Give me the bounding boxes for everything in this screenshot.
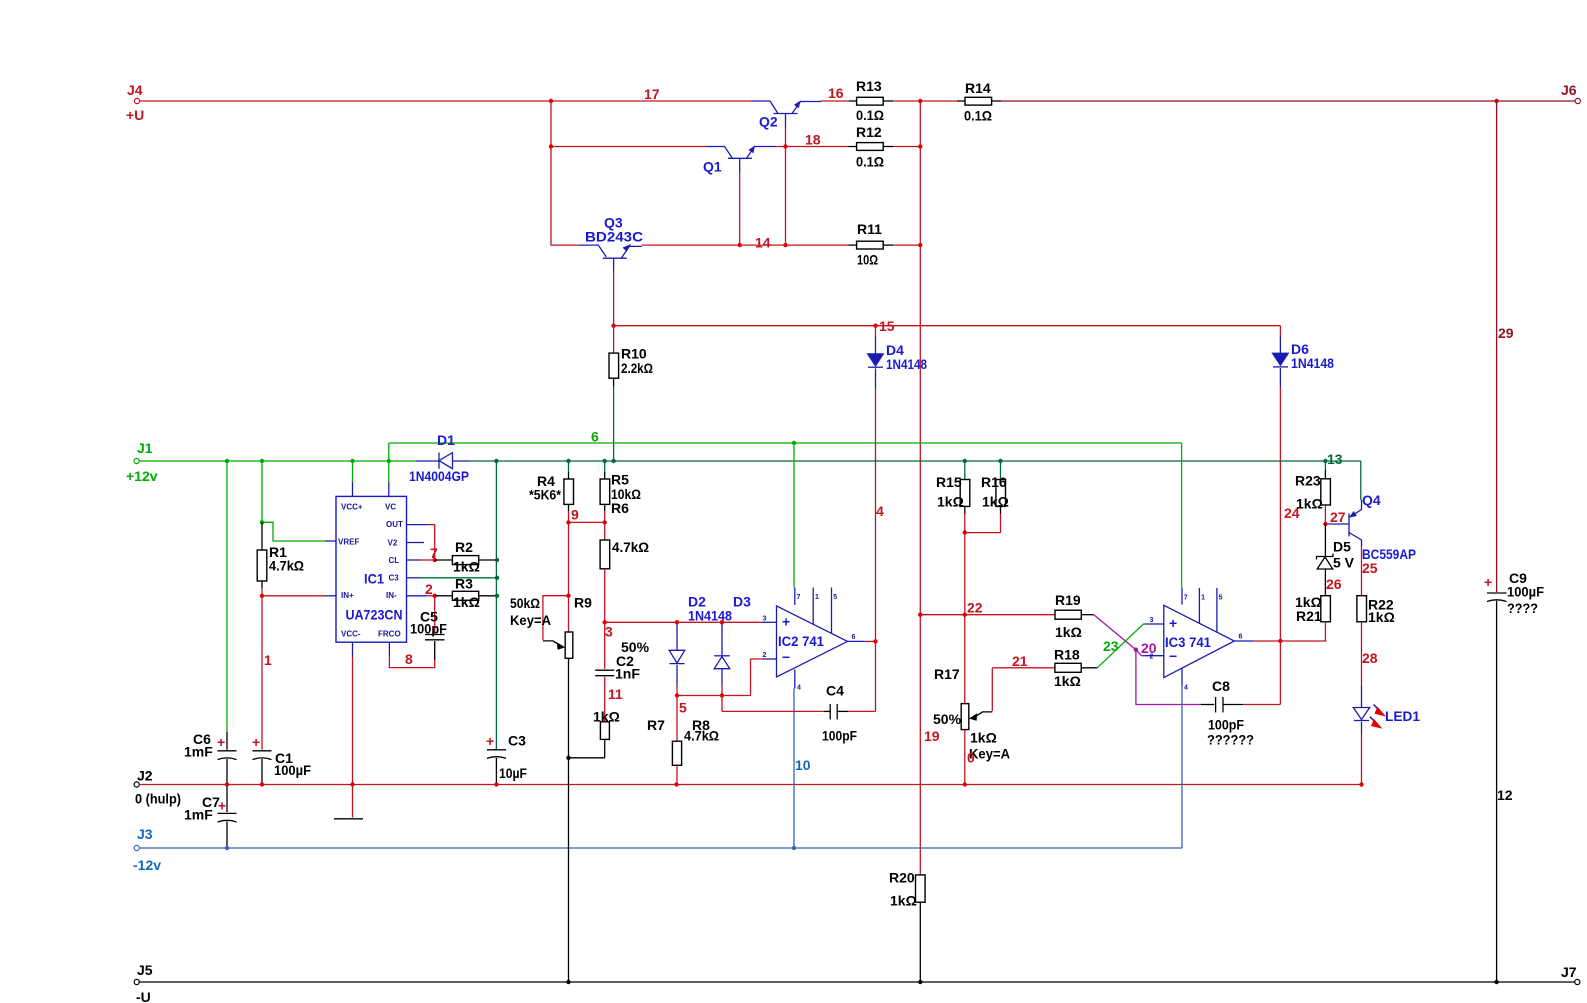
svg-text:−: −: [1169, 648, 1177, 664]
junction C3: [494, 782, 498, 786]
svg-text:4: 4: [797, 685, 801, 692]
resistor R16 1k: [981, 461, 1009, 533]
wire +12v down to C6: [226, 461, 228, 732]
svg-text:15: 15: [879, 318, 895, 334]
terminal J3: [133, 826, 161, 873]
svg-text:2.2kΩ: 2.2kΩ: [621, 360, 653, 376]
wire Q1 base down to net 14: [739, 173, 741, 245]
transistor Q3 BD243C (NPN driver): [579, 215, 643, 272]
svg-text:22: 22: [967, 600, 983, 616]
svg-text:10Ω: 10Ω: [857, 252, 878, 268]
svg-text:1mF: 1mF: [184, 744, 213, 760]
svg-text:3: 3: [763, 616, 767, 623]
wire -12v blue rail: [139, 847, 1182, 849]
junction R3 right on dark green: [495, 594, 499, 598]
svg-text:14: 14: [755, 235, 771, 251]
wire left rail x=551 down to Q3: [551, 101, 579, 245]
wire net 23 green diagonal R18 to IC3 non-inverting: [1097, 624, 1144, 668]
resistor R21 1k: [1295, 594, 1330, 641]
svg-text:26: 26: [1326, 576, 1342, 592]
wire net 1 down to C1: [261, 596, 263, 750]
svg-text:C3: C3: [389, 574, 400, 583]
wire net 3 row: [605, 621, 762, 623]
terminal J7: [1561, 964, 1580, 985]
svg-text:4: 4: [1184, 685, 1188, 692]
svg-text:1kΩ: 1kΩ: [890, 893, 917, 909]
wire 29 maroon vertical to C9: [1496, 101, 1498, 592]
svg-text:8: 8: [405, 651, 413, 667]
svg-text:0.1Ω: 0.1Ω: [964, 108, 992, 124]
wire VCC+ pin connection down to IC1: [352, 461, 354, 482]
IC1 UA723CN body: [325, 482, 427, 657]
svg-text:29: 29: [1498, 325, 1514, 341]
svg-text:J1: J1: [137, 440, 153, 456]
wire Q1 emitter to net 18 continuation: [776, 146, 849, 148]
svg-text:R7: R7: [647, 717, 665, 733]
capacitor C4 100pF: [722, 683, 876, 744]
capacitor C8 100pF: [1201, 678, 1281, 748]
svg-text:13: 13: [1327, 451, 1343, 467]
junction rail/R11: [918, 243, 922, 247]
svg-text:*5K6*: *5K6*: [529, 487, 561, 503]
svg-text:1: 1: [815, 594, 819, 601]
junction R20 bottom: [918, 980, 922, 984]
potentiometer R17 1k: [933, 615, 1010, 785]
wire R21 bottom corner to IC3 output row: [1324, 640, 1327, 642]
svg-text:50kΩ: 50kΩ: [510, 595, 540, 611]
junction C6 column: [225, 459, 229, 463]
svg-text:+U: +U: [126, 107, 144, 123]
svg-text:50%: 50%: [933, 711, 962, 727]
junction Q1 base / net 14: [738, 243, 742, 247]
wire net 6 corner down to IC3 pin7: [1181, 443, 1183, 588]
svg-text:1: 1: [264, 652, 272, 668]
wire IC3 pin4 down to -12v rail: [1181, 686, 1183, 848]
wire C3 pin (dark green) to x=497: [419, 577, 497, 579]
wire D2 bottom to net 5: [676, 685, 678, 696]
wire R7 bottom to pot column: [569, 757, 605, 759]
op-amp IC2 741: [762, 588, 865, 692]
svg-text:7: 7: [1184, 595, 1188, 602]
svg-text:IC2 741: IC2 741: [778, 633, 824, 649]
svg-text:4: 4: [876, 503, 884, 519]
svg-text:18: 18: [805, 132, 821, 148]
svg-text:FRCO: FRCO: [378, 630, 401, 639]
svg-text:R17: R17: [934, 666, 960, 682]
svg-text:16: 16: [828, 85, 844, 101]
svg-text:4.7kΩ: 4.7kΩ: [684, 728, 719, 744]
junction Q2 base / net 18: [783, 144, 787, 148]
resistor R5 10k: [600, 461, 641, 516]
wire R10 bottom to dark-green output sense: [613, 386, 615, 461]
svg-text:J2: J2: [137, 768, 153, 784]
svg-text:R23: R23: [1295, 473, 1321, 489]
wire net 5 corner up to IC2 inverting input: [751, 659, 764, 696]
terminal J4: [126, 82, 144, 123]
resistor R1 4.7k: [257, 522, 304, 588]
resistor R15 1k: [936, 461, 970, 533]
svg-text:100pF: 100pF: [1208, 717, 1244, 733]
junction VCC-/ground: [350, 782, 354, 786]
svg-text:1kΩ: 1kΩ: [593, 709, 620, 725]
svg-text:1: 1: [1201, 595, 1205, 602]
capacitor C3 10uF: [486, 733, 527, 785]
svg-text:IC1: IC1: [364, 571, 384, 587]
transistor Q1 (PNP pass): [703, 147, 776, 175]
svg-text:R19: R19: [1055, 592, 1081, 608]
junction R23 column (node 13): [1323, 459, 1327, 463]
pin stubs: [352, 482, 354, 496]
svg-text:Q2: Q2: [759, 114, 778, 130]
svg-text:1kΩ: 1kΩ: [453, 594, 480, 610]
resistor R8 4.7k: [672, 696, 719, 785]
junction D3 top / net 3: [720, 620, 724, 624]
resistor R23 1k: [1295, 461, 1330, 524]
svg-text:R21: R21: [1296, 608, 1322, 624]
wire net 18 row from rail to Q1 collector: [551, 146, 705, 148]
svg-text:Key=A: Key=A: [969, 746, 1010, 762]
junction R17 bottom: [963, 782, 967, 786]
svg-text:OUT: OUT: [386, 520, 403, 529]
svg-text:1mF: 1mF: [184, 807, 213, 823]
junction C3 row: [495, 576, 499, 580]
wire -U bottom rail: [139, 981, 1574, 983]
wire OUT pin to node 7: [427, 525, 435, 560]
svg-text:19: 19: [924, 728, 940, 744]
junction R1 top / VREF: [260, 520, 264, 524]
svg-text:−: −: [782, 649, 790, 665]
svg-text:+: +: [218, 798, 226, 814]
wire Q3 base down to net 15: [613, 272, 615, 326]
svg-text:J5: J5: [137, 962, 153, 978]
capacitor C5 100pF: [410, 596, 447, 660]
resistor R13 0.1ohm: [821, 78, 920, 123]
svg-text:R3: R3: [455, 576, 473, 592]
junction node 2: [433, 594, 437, 598]
junction net15/R10/Q3 base: [611, 324, 615, 328]
svg-text:100pF: 100pF: [822, 728, 857, 744]
svg-text:+: +: [1484, 574, 1492, 590]
LED1: [1353, 686, 1420, 785]
wire down to net 22: [964, 533, 966, 615]
svg-text:R11: R11: [857, 221, 882, 237]
junction R8: [674, 782, 678, 786]
wire net 6 branch down to IC2 pin7: [793, 443, 795, 588]
wire +U from J4 to Q2 collector (net 17): [140, 100, 751, 102]
svg-text:R16: R16: [981, 474, 1007, 490]
svg-text:VC: VC: [385, 503, 396, 512]
diode D1 1N4004GP: [409, 432, 470, 484]
svg-text:6: 6: [1239, 634, 1243, 641]
wire IC2 pin4 down to -12v rail: [793, 688, 795, 848]
svg-text:0 (hulp): 0 (hulp): [135, 791, 181, 807]
svg-text:1N4148: 1N4148: [688, 608, 732, 624]
terminal J2: [134, 768, 181, 807]
resistor R7 1k: [593, 709, 665, 758]
svg-text:+: +: [782, 614, 790, 630]
svg-text:LED1: LED1: [1385, 708, 1420, 724]
svg-text:1kΩ: 1kΩ: [1055, 624, 1082, 640]
svg-text:BD243C: BD243C: [585, 229, 643, 245]
svg-text:VCC+: VCC+: [341, 503, 363, 512]
junction R1 bottom: [260, 594, 264, 598]
svg-text:VCC-: VCC-: [341, 630, 361, 639]
wire VREF green loop to R1 top: [262, 522, 325, 541]
svg-text:5: 5: [1219, 595, 1223, 602]
op-amp IC3 741: [1145, 588, 1253, 692]
junction node 7: [433, 558, 437, 562]
wire R1 bottom to IN+ (net 1): [261, 588, 263, 596]
resistor R3 1k: [435, 576, 497, 611]
svg-text:D3: D3: [733, 594, 751, 610]
wire net 9 joining R4/R5 bottoms: [569, 511, 605, 522]
svg-text:100pF: 100pF: [410, 621, 447, 637]
resistor R2 1k: [435, 539, 497, 575]
wire CL pin to node 7: [420, 559, 435, 561]
svg-text:4.7kΩ: 4.7kΩ: [269, 558, 304, 574]
svg-text:-U: -U: [136, 989, 151, 1003]
capacitor C7 1mF: [184, 785, 237, 849]
svg-text:R18: R18: [1054, 647, 1080, 663]
svg-text:Q1: Q1: [703, 159, 722, 175]
terminal J5: [134, 962, 153, 1003]
svg-text:3: 3: [605, 624, 613, 640]
wire VCC- down to 0-rail: [352, 657, 354, 785]
zener diode D5 5V: [1317, 524, 1355, 596]
resistor R6 4.7k: [600, 522, 649, 622]
junction C1/R1 column: [260, 459, 264, 463]
junction D2 top / net 3: [675, 620, 679, 624]
wire IN- pin to node 2: [427, 595, 435, 597]
svg-text:????: ????: [1507, 600, 1538, 616]
resistor R4 5K6: [529, 461, 574, 511]
svg-text:+: +: [252, 734, 260, 750]
svg-text:J3: J3: [137, 826, 153, 842]
junction pot column: [566, 756, 570, 760]
svg-text:5 V: 5 V: [1333, 555, 1355, 571]
diode D4 1N4148: [868, 326, 927, 390]
wire net 15 horizontal: [614, 325, 1281, 327]
svg-text:12: 12: [1497, 787, 1513, 803]
wire Q4 collector down to R22 (net 25): [1361, 546, 1363, 596]
svg-text:7: 7: [797, 594, 801, 601]
svg-text:C3: C3: [508, 733, 526, 749]
wire joining R15/R16 bottoms: [965, 532, 1001, 534]
svg-text:1N4148: 1N4148: [886, 356, 927, 372]
svg-text:1kΩ: 1kΩ: [1296, 496, 1323, 512]
svg-text:2: 2: [1150, 654, 1154, 661]
svg-text:Q4: Q4: [1362, 492, 1381, 508]
svg-text:0.1Ω: 0.1Ω: [856, 107, 884, 123]
junction net3/R6/C2: [603, 620, 607, 624]
svg-text:1kΩ: 1kΩ: [1368, 609, 1395, 625]
wire IC3 output row: [1253, 640, 1326, 642]
svg-text:IN+: IN+: [341, 591, 354, 600]
svg-text:1N4004GP: 1N4004GP: [409, 468, 469, 484]
svg-text:3: 3: [1150, 617, 1154, 624]
wire VC pin connection down to IC1: [388, 461, 390, 482]
svg-text:R9: R9: [574, 595, 592, 611]
svg-text:1kΩ: 1kΩ: [982, 494, 1009, 510]
junction at (551,146.5): [549, 144, 553, 148]
svg-text:+: +: [1169, 615, 1177, 631]
junction R2 right on dark green: [495, 558, 499, 562]
resistor R14 0.1ohm: [920, 80, 1001, 124]
resistor R11 10ohm: [849, 221, 921, 268]
wire net 14 from Q3 emitter to R11: [642, 244, 849, 246]
wire from +12v rail down to R1 top: [261, 461, 263, 522]
junction rail/R12: [918, 144, 922, 148]
diode D3 1N4148: [714, 594, 751, 686]
svg-text:9: 9: [571, 507, 579, 523]
svg-text:11: 11: [608, 686, 623, 702]
wire net 13 column to Q4 emitter: [1360, 461, 1362, 500]
junction IC2 pin4: [792, 846, 796, 850]
svg-text:17: 17: [644, 86, 660, 102]
diode D2 1N4148: [669, 594, 732, 686]
junction LED1 bottom: [1359, 782, 1363, 786]
diode D6 1N4148: [1273, 326, 1335, 388]
wire net 24 from D6 down to IC3 output row: [1279, 388, 1281, 705]
wire net 21 row: [992, 667, 1055, 669]
capacitor C9 100uF: [1484, 570, 1544, 982]
svg-text:0: 0: [967, 750, 975, 766]
svg-text:-12v: -12v: [133, 857, 161, 873]
svg-text:4.7kΩ: 4.7kΩ: [612, 539, 649, 555]
svg-text:D5: D5: [1333, 539, 1351, 555]
svg-text:UA723CN: UA723CN: [346, 607, 403, 623]
junction R5 column: [603, 459, 607, 463]
svg-text:10: 10: [795, 757, 811, 773]
junction Q2 base line / net 14: [783, 243, 787, 247]
wire dark green output-sense net from D1 to Q4: [470, 460, 1361, 462]
svg-text:R20: R20: [889, 870, 915, 886]
svg-text:1kΩ: 1kΩ: [453, 559, 480, 575]
transistor Q2 (PNP pass): [751, 101, 821, 130]
svg-text:V2: V2: [388, 539, 398, 548]
svg-text:R2: R2: [455, 539, 473, 555]
junction at (551,101): [549, 99, 553, 103]
svg-text:6: 6: [591, 429, 599, 445]
svg-text:2: 2: [425, 581, 433, 597]
svg-text:VREF: VREF: [338, 538, 359, 547]
wire 0(hulp) red rail: [139, 784, 1361, 786]
wire output after R14 to J6 (maroon net): [1001, 100, 1575, 102]
wire net 20 purple diagonal R19 to IC3 inverting: [1094, 615, 1136, 650]
junction R15 column: [963, 459, 967, 463]
potentiometer R9 50k: [510, 522, 592, 982]
wire net 22 row: [920, 614, 1055, 616]
svg-text:5: 5: [833, 594, 837, 601]
wire net 8 from C5 to FRCO: [389, 656, 434, 668]
svg-text:J6: J6: [1561, 82, 1577, 98]
ground symbol below 0-rail: [334, 785, 363, 819]
svg-text:+12v: +12v: [126, 468, 158, 484]
wire dark green vertical x=497 down to C3: [495, 461, 497, 750]
svg-text:1kΩ: 1kΩ: [937, 494, 964, 510]
svg-text:0.1Ω: 0.1Ω: [856, 154, 884, 170]
svg-text:C8: C8: [1212, 678, 1230, 694]
svg-text:R13: R13: [856, 78, 882, 94]
resistor R18 1k: [1054, 647, 1097, 690]
svg-text:Key=A: Key=A: [510, 612, 551, 628]
wire net 6 from corner above VC pin: [389, 442, 1182, 444]
svg-text:21: 21: [1012, 653, 1028, 669]
wire net 5 row: [677, 695, 751, 697]
wire IC2 output to net 4 vertical: [865, 640, 876, 642]
svg-text:28: 28: [1362, 650, 1378, 666]
resistor R10 2.2k: [609, 326, 653, 386]
wire net 20 down and right to C8: [1136, 650, 1201, 705]
svg-text:100µF: 100µF: [274, 762, 311, 778]
resistor R12 0.1ohm: [849, 124, 921, 170]
svg-text:6: 6: [852, 634, 856, 641]
svg-text:R6: R6: [611, 500, 629, 516]
junction VC/net6 column: [387, 459, 391, 463]
wire +12v green from J1 to D1: [139, 460, 416, 462]
terminal J6: [1561, 82, 1580, 104]
junction C6/C7: [225, 782, 229, 786]
svg-text:50%: 50%: [621, 639, 650, 655]
transistor Q4 BC559AP (PNP): [1325, 492, 1416, 562]
svg-text:1N4148: 1N4148: [1291, 355, 1334, 371]
svg-text:+: +: [217, 734, 225, 750]
junction R4 column: [566, 459, 570, 463]
junction maroon rail top: [1494, 99, 1498, 103]
svg-text:IC3 741: IC3 741: [1165, 634, 1211, 650]
svg-text:D1: D1: [437, 432, 455, 448]
svg-text:1kΩ: 1kΩ: [1054, 673, 1081, 689]
resistor R19 1k: [1055, 592, 1094, 640]
svg-text:J4: J4: [127, 82, 143, 98]
svg-text:27: 27: [1330, 509, 1346, 525]
svg-text:23: 23: [1103, 638, 1119, 654]
svg-text:10µF: 10µF: [499, 765, 527, 781]
svg-text:R15: R15: [936, 474, 962, 490]
svg-text:C4: C4: [826, 683, 844, 699]
svg-text:J7: J7: [1561, 964, 1577, 980]
junction R10 column: [611, 459, 615, 463]
resistor R22 1k: [1357, 596, 1395, 686]
svg-text:1kΩ: 1kΩ: [970, 730, 997, 746]
junction R16 column: [998, 459, 1002, 463]
junction net15/D4: [873, 324, 877, 328]
svg-text:1nF: 1nF: [615, 666, 640, 682]
svg-text:R12: R12: [856, 124, 882, 140]
resistor R20 1k: [889, 869, 925, 982]
svg-text:+: +: [486, 733, 494, 749]
junction rail/R13: [918, 99, 922, 103]
svg-text:??????: ??????: [1207, 732, 1254, 748]
terminal J1: [126, 440, 158, 484]
capacitor C1 100uF: [252, 734, 311, 785]
svg-text:CL: CL: [389, 556, 400, 565]
wire Q2 base down through net 18 to net 14: [785, 128, 787, 246]
junction pot R9 column: [566, 980, 570, 984]
svg-text:R14: R14: [965, 80, 991, 96]
svg-text:100µF: 100µF: [1507, 584, 1544, 600]
svg-text:25: 25: [1362, 560, 1378, 576]
junction C7 bottom: [225, 846, 229, 850]
wire D3 bottom to net 5: [721, 685, 723, 696]
svg-text:2: 2: [763, 652, 767, 659]
svg-text:5: 5: [679, 700, 687, 716]
junction C9 bottom: [1494, 980, 1498, 984]
junction C1: [260, 782, 264, 786]
capacitor C2 1nF: [595, 622, 649, 722]
svg-text:IN-: IN-: [386, 591, 397, 600]
wire net 4 from D4 down to IC2 output: [875, 389, 877, 711]
